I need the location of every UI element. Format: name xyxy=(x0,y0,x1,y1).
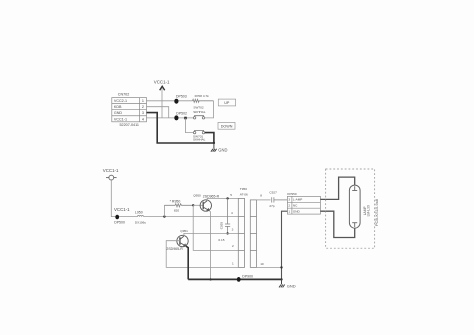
resistor R950 xyxy=(164,204,193,207)
wire VCC drop xyxy=(111,180,137,217)
svg-text:SKHHAL: SKHHAL xyxy=(193,138,206,142)
jumper DP900 xyxy=(237,277,241,282)
node junction C925/pin3 xyxy=(226,232,228,234)
svg-text:3: 3 xyxy=(232,228,234,232)
switch SW702 xyxy=(193,116,204,119)
dashed enclosure xyxy=(326,169,375,248)
svg-text:VCC1-1: VCC1-1 xyxy=(154,79,170,84)
wire Q951 collector to pin3 xyxy=(184,233,238,236)
svg-text:DP503: DP503 xyxy=(176,94,187,98)
lamp electrodes xyxy=(352,186,357,227)
label UP xyxy=(218,99,235,106)
wire VCC vertical xyxy=(161,88,163,118)
svg-text:DOWN: DOWN xyxy=(221,124,233,128)
transistor Q951 xyxy=(177,235,188,246)
node emitter/rail xyxy=(209,278,211,280)
node junction R950/base xyxy=(192,204,194,206)
capacitor C927 xyxy=(272,197,288,202)
svg-text:VCC1-1: VCC1-1 xyxy=(114,207,130,212)
ground (top) xyxy=(211,143,217,152)
switch SW701 xyxy=(193,131,204,134)
wire lamp HV thick xyxy=(320,177,354,199)
wire pin4 row / DP502 row xyxy=(147,117,194,119)
wire pin1 row xyxy=(147,100,193,102)
svg-text:CN702: CN702 xyxy=(118,92,129,96)
wire pin8 to C927 xyxy=(257,199,271,201)
node junction sw xyxy=(184,117,187,120)
wire main rail xyxy=(144,216,239,218)
wire lamp return thick xyxy=(320,211,354,237)
svg-text:52207-0411: 52207-0411 xyxy=(120,123,139,127)
svg-text:Q950: Q950 xyxy=(193,194,201,198)
node on rail xyxy=(213,142,215,144)
svg-text:4: 4 xyxy=(142,117,144,121)
node junction pin5/C925 xyxy=(226,197,228,199)
svg-text:1: 1 xyxy=(142,99,144,103)
svg-text:L950: L950 xyxy=(135,211,143,215)
svg-text:2: 2 xyxy=(142,105,144,109)
svg-text:1: 1 xyxy=(288,209,290,213)
bottom GND rail thick xyxy=(188,278,281,280)
ground (bottom) xyxy=(279,279,285,287)
svg-text:DP502: DP502 xyxy=(176,112,187,116)
svg-text:C927: C927 xyxy=(269,191,277,195)
svg-text:KP950: KP950 xyxy=(287,192,297,196)
wire up to R950 xyxy=(163,205,165,216)
svg-text:SW702: SW702 xyxy=(193,106,203,110)
svg-text:T950: T950 xyxy=(240,187,247,191)
svg-text:DP500: DP500 xyxy=(114,220,125,224)
wire pin2 row xyxy=(147,107,169,118)
svg-text:LM-L30: LM-L30 xyxy=(366,205,370,216)
svg-text:R708 4.7k: R708 4.7k xyxy=(195,94,210,98)
svg-text:VCC1-1: VCC1-1 xyxy=(103,168,119,173)
svg-text:2: 2 xyxy=(232,244,234,248)
lamp tube xyxy=(349,185,360,228)
svg-text:UP: UP xyxy=(224,101,230,105)
wire base Q950 xyxy=(193,204,203,206)
svg-text:SKHHAL: SKHHAL xyxy=(193,110,206,114)
svg-text:2: 2 xyxy=(288,204,290,208)
svg-text:1: 1 xyxy=(232,262,234,266)
svg-text:GND: GND xyxy=(218,148,227,153)
node junction rail/R950 xyxy=(163,215,165,217)
wire pin3 GND thick xyxy=(147,113,214,143)
svg-text:GND: GND xyxy=(293,209,301,213)
svg-text:GND: GND xyxy=(114,111,123,115)
svg-text:AT-06: AT-06 xyxy=(240,193,248,197)
resistor R708 xyxy=(193,99,214,102)
jumper DP502 xyxy=(174,115,178,120)
svg-text:VCC2-1: VCC2-1 xyxy=(114,99,127,103)
svg-text:KDB: KDB xyxy=(114,105,122,109)
jumper DP503 xyxy=(174,99,178,104)
inductor L950 xyxy=(137,216,143,217)
svg-text:3: 3 xyxy=(288,198,290,202)
transistor Q950 xyxy=(200,200,211,211)
svg-text:* R950: * R950 xyxy=(170,199,181,203)
svg-text:C925: C925 xyxy=(219,222,223,230)
svg-text:10: 10 xyxy=(260,262,264,266)
connector CN702 xyxy=(112,98,147,122)
svg-text:0.15: 0.15 xyxy=(218,238,224,242)
wire Q951 emitter down thick xyxy=(186,246,188,279)
svg-text:820: 820 xyxy=(174,209,179,213)
svg-text:PCB-KS15-9x8: PCB-KS15-9x8 xyxy=(374,198,379,226)
svg-text:DP900: DP900 xyxy=(242,274,253,278)
wire Q951 base loop to pin1 xyxy=(166,241,238,268)
svg-text:2SD965-R: 2SD965-R xyxy=(166,247,183,251)
label DOWN xyxy=(218,122,235,129)
power arrow VCC1-1 xyxy=(160,86,165,90)
wire to SW701 xyxy=(186,118,194,132)
svg-text:4: 4 xyxy=(231,211,233,215)
jumper DP500 xyxy=(115,215,119,220)
svg-text:GND: GND xyxy=(287,284,296,289)
wire pin10 xyxy=(257,266,282,268)
node junction pin10 xyxy=(280,266,282,268)
wire KP950 GND to rail xyxy=(282,211,288,279)
svg-text:DX106u: DX106u xyxy=(135,220,146,224)
svg-text:L-AMP: L-AMP xyxy=(293,198,302,202)
svg-text:VCC1-1: VCC1-1 xyxy=(114,117,127,121)
wire SW701 to gnd rail xyxy=(205,133,214,143)
svg-text:3: 3 xyxy=(142,111,144,115)
wire Q950 collector to pin5 xyxy=(207,198,238,200)
node rail end xyxy=(280,278,282,280)
wire Q950 emitter down xyxy=(209,211,210,280)
svg-text:27p: 27p xyxy=(269,204,274,208)
svg-text:NC: NC xyxy=(293,204,298,208)
svg-text:5: 5 xyxy=(230,193,232,197)
svg-text:8: 8 xyxy=(260,194,262,198)
svg-text:Q951: Q951 xyxy=(180,229,188,233)
capacitor C925 xyxy=(225,198,230,233)
wire Q950 base node down to pin2 xyxy=(193,205,238,250)
power circle xyxy=(106,175,117,180)
wire to SW702 xyxy=(205,101,214,118)
